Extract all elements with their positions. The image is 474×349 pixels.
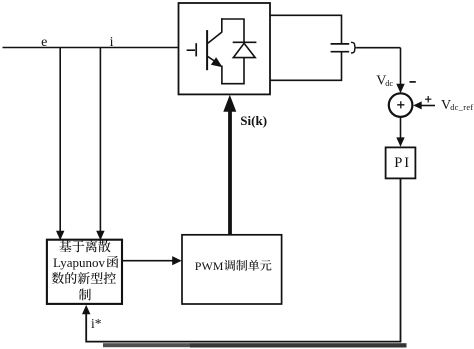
- svg-text:Lyapunov: Lyapunov: [53, 255, 105, 270]
- svg-text:i: i: [110, 35, 114, 50]
- svg-text:PWM: PWM: [195, 259, 224, 273]
- svg-text:i*: i*: [91, 316, 102, 331]
- svg-text:PI: PI: [394, 155, 411, 171]
- svg-text:e: e: [41, 35, 47, 50]
- svg-text:dc_ref: dc_ref: [450, 103, 473, 112]
- svg-text:Si(k): Si(k): [240, 113, 267, 128]
- svg-text:dc: dc: [385, 79, 393, 88]
